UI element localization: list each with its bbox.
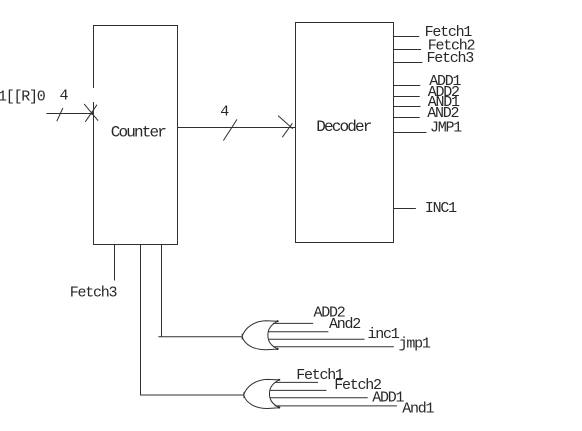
wire stub AND1 bbox=[394, 106, 421, 108]
svg-text:ADD1: ADD1 bbox=[372, 390, 404, 407]
svg-text:4: 4 bbox=[220, 103, 229, 120]
bus slash middle bbox=[223, 119, 237, 140]
arrowhead into decoder bbox=[278, 116, 293, 129]
svg-text:JMP1: JMP1 bbox=[430, 120, 462, 137]
decoder box U2 bbox=[296, 23, 394, 243]
bus slash left bbox=[57, 108, 63, 121]
or-gate G1 bbox=[242, 321, 278, 350]
gate G1 crescent tip dots bbox=[277, 320, 279, 322]
wire counter to decoder bbox=[178, 127, 296, 129]
wire G1 input And2 bbox=[268, 331, 328, 333]
gate G2 tip tick bbox=[243, 392, 245, 398]
gate G1 tip tick bbox=[241, 334, 243, 340]
wire G2 input And1 bbox=[275, 405, 397, 407]
wire G2 input Fetch1 bbox=[275, 381, 319, 383]
wire stub ADD2 bbox=[394, 96, 420, 98]
svg-text:Fetch3: Fetch3 bbox=[427, 50, 475, 67]
wire input bus to counter bbox=[47, 113, 94, 115]
svg-text:jmp1: jmp1 bbox=[399, 336, 431, 353]
wire stub AND2 bbox=[394, 117, 420, 119]
svg-text:Decoder: Decoder bbox=[316, 118, 372, 136]
wire G2 input Fetch2 bbox=[270, 389, 327, 391]
wire stub JMP1 bbox=[394, 132, 427, 134]
wire G1 input jmp1 bbox=[273, 346, 394, 348]
svg-text:1[[R]0: 1[[R]0 bbox=[0, 89, 46, 106]
wire G1 input ADD2 bbox=[273, 322, 313, 324]
svg-text:Fetch3: Fetch3 bbox=[70, 284, 118, 301]
wire stub Fetch2 bbox=[394, 49, 422, 51]
arrowhead into counter bbox=[84, 104, 98, 121]
svg-text:And2: And2 bbox=[329, 316, 360, 333]
or-gate G2 bbox=[244, 379, 280, 408]
gate G2 crescent tip dots bbox=[278, 379, 280, 381]
wire stub Fetch3 bbox=[394, 62, 423, 64]
svg-text:4: 4 bbox=[60, 87, 69, 104]
wire stub INC1 bbox=[394, 208, 416, 210]
junction dot bbox=[91, 112, 94, 115]
wire G1 input inc1 bbox=[268, 338, 364, 340]
wire counter to OR1 vertical bbox=[158, 245, 242, 337]
wire stub Fetch1 bbox=[394, 36, 420, 38]
svg-text:And1: And1 bbox=[402, 401, 434, 418]
svg-text:INC1: INC1 bbox=[425, 200, 457, 217]
wire Fetch3 stub below counter bbox=[114, 245, 116, 281]
wire counter to OR2 vertical bbox=[141, 245, 244, 396]
svg-text:inc1: inc1 bbox=[368, 326, 400, 343]
wire G2 input ADD1 bbox=[270, 397, 368, 399]
svg-text:Counter: Counter bbox=[111, 124, 167, 142]
wire stub ADD1 bbox=[394, 85, 421, 87]
counter box U1 bbox=[94, 26, 178, 245]
